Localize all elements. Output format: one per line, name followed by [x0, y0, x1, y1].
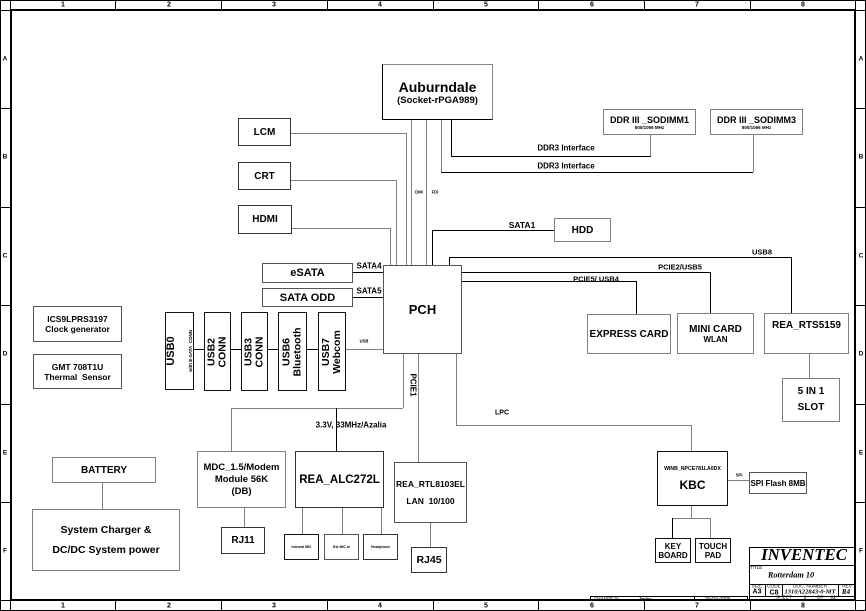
- wire PCIE5/USB4 to EXPRESS CARD: [462, 281, 637, 282]
- frame column numbers top: [61, 2, 65, 9]
- block RJ11: [221, 527, 265, 554]
- wire SATA5: [353, 297, 383, 298]
- block USB7 Webcom: [318, 312, 346, 391]
- block DDR III _SODIMM1: [603, 109, 696, 135]
- label PCIE2/USB5: [658, 263, 702, 272]
- block DDR III _SODIMM3: [710, 109, 803, 135]
- label REV header: [842, 585, 852, 590]
- block BATTERY: [52, 457, 156, 483]
- wire FDI: [426, 120, 427, 265]
- wire KBC to keyboard and touchpad: [691, 506, 692, 518]
- block HDD: [554, 218, 611, 242]
- block CRT: [238, 162, 291, 190]
- block internal MIC jack: [284, 534, 319, 560]
- block SATA ODD: [262, 288, 353, 307]
- wire USB8 to REA_RTS5159: [449, 257, 450, 265]
- block KBC WINB_NPCE781LA0DX: [657, 451, 728, 506]
- wire azalia PCH to codec and MDC: [403, 354, 404, 408]
- block ICS9LPRS3197 clock generator: [33, 306, 122, 342]
- label SIZE header: [752, 585, 763, 590]
- block HDMI: [238, 205, 292, 234]
- block EXPRESS CARD: [587, 314, 671, 354]
- label DMI: [415, 190, 423, 195]
- label CODE header: [767, 585, 781, 590]
- block headphone jack: [363, 534, 398, 560]
- wire LAN to RJ45: [430, 523, 431, 547]
- wire KBC to SPI flash: [728, 480, 749, 481]
- label change date: [705, 596, 730, 601]
- block REA_RTL8103EL LAN: [394, 462, 467, 523]
- block system charger: [32, 509, 180, 571]
- label FDI: [432, 190, 439, 195]
- wire DMI: [411, 120, 412, 265]
- wire LCM to PCH: [291, 133, 407, 134]
- wire HDMI to PCH: [292, 228, 390, 229]
- wire SATA1 to HDD: [432, 230, 433, 265]
- label Amino: [639, 596, 652, 601]
- label PCIE1: [408, 373, 417, 396]
- label TITLE: [750, 565, 762, 570]
- block REA_RTS5159: [764, 313, 849, 354]
- frame column ticks top: [115, 0, 116, 10]
- block ext MIC in jack: [324, 534, 359, 560]
- wire codec to headphone: [381, 508, 382, 534]
- frame corner ticks: [10, 0, 11, 10]
- label rev R4: [842, 588, 850, 596]
- block MINI CARD WLAN: [677, 313, 754, 354]
- label Rotterdam 10: [768, 571, 814, 580]
- label doc number value: [785, 589, 836, 596]
- label DDR3 interface 2: [537, 162, 594, 171]
- label SATA5: [356, 287, 381, 296]
- frame column ticks bottom: [115, 601, 116, 611]
- label size A3: [753, 589, 762, 596]
- block USB0 connector: [165, 312, 194, 390]
- wire PCIE1 to LAN: [418, 354, 419, 462]
- wire codec to ext MIC: [342, 508, 343, 534]
- frame row ticks right: [856, 108, 866, 109]
- wire CRT to PCH: [291, 180, 397, 181]
- wire LPC to KBC: [456, 354, 457, 425]
- wire USB6-USB7: [307, 349, 318, 350]
- wire DDR3 interface to SODIMM3: [441, 120, 442, 172]
- label 3.3V 33MHz/Azalia: [316, 421, 387, 430]
- wire RTS5159 to 5in1 slot: [809, 354, 810, 378]
- block LCM: [238, 118, 291, 146]
- block SPI Flash 8MB: [749, 472, 807, 494]
- block REA_ALC272L audio codec: [295, 451, 384, 508]
- block USB2 CONN: [204, 312, 231, 391]
- wire PCIE2/USB5 to MINI CARD: [462, 272, 711, 273]
- label CHANGE by: [594, 596, 619, 601]
- wire USB3-USB6: [268, 349, 278, 350]
- change strip: [590, 596, 748, 601]
- label SATA1: [509, 220, 536, 230]
- block PCH: [383, 265, 462, 354]
- wire battery to charger: [102, 483, 103, 509]
- block eSATA: [262, 263, 353, 283]
- wire SATA4: [353, 272, 383, 273]
- label LPC: [495, 410, 509, 417]
- frame row ticks left: [0, 108, 10, 109]
- block KEY BOARD: [655, 538, 691, 563]
- block USB3 CONN: [241, 312, 268, 391]
- block GMT 708T1U thermal sensor: [33, 354, 122, 389]
- frame column numbers bottom: [61, 603, 65, 610]
- label INVENTEC logo: [761, 545, 847, 565]
- label SATA4: [356, 262, 381, 271]
- label DDR3 interface 1: [537, 144, 594, 153]
- wire MDC to RJ11: [244, 508, 245, 527]
- wire USB0-USB2: [194, 349, 204, 350]
- label DOC NUMBER header: [793, 585, 827, 590]
- block RJ45: [411, 547, 447, 573]
- label PCIE5/USB4: [573, 275, 619, 284]
- label SHEET row: [776, 596, 792, 601]
- block U_CPU Auburndale: [382, 64, 493, 120]
- block 5 IN 1 SLOT: [782, 378, 840, 422]
- label SPI: [736, 473, 743, 478]
- wire USB7 to PCH: [346, 349, 383, 350]
- frame row letters right: [859, 56, 864, 63]
- frame row letters left: [3, 56, 8, 63]
- block USB6 Bluetooth: [278, 312, 307, 391]
- block MDC modem module: [197, 451, 286, 508]
- label USB: [360, 339, 369, 344]
- wire codec to internal MIC: [302, 508, 303, 534]
- label USB8: [752, 248, 772, 257]
- title block frame: [749, 547, 856, 601]
- wire DDR3 interface to SODIMM1: [451, 120, 452, 156]
- label code C8: [770, 590, 779, 597]
- wire USB2-USB3: [231, 349, 241, 350]
- block TOUCH PAD: [695, 538, 731, 563]
